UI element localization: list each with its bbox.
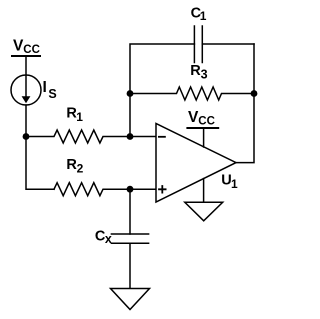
- label Cx: [95, 228, 112, 246]
- node at R3 right junction: [251, 90, 258, 97]
- minus sign: [159, 136, 165, 138]
- Vcc underline (op-amp): [187, 127, 218, 129]
- label IS: [43, 79, 57, 101]
- svg-text:1: 1: [200, 9, 207, 23]
- label R1: [66, 106, 83, 125]
- op-amp U1: [156, 124, 236, 203]
- wire C1 to right column: [202, 43, 254, 45]
- ground (op-amp): [185, 202, 223, 221]
- label R3: [190, 63, 207, 82]
- label U1: [221, 173, 238, 192]
- svg-text:CC: CC: [23, 44, 40, 56]
- wire feedback column (node up to C1 row): [130, 44, 194, 137]
- svg-text:1: 1: [231, 177, 238, 191]
- svg-text:2: 2: [77, 161, 84, 175]
- svg-text:S: S: [48, 87, 56, 101]
- capacitor Cx: [111, 233, 148, 235]
- label R2: [66, 157, 83, 176]
- svg-text:I: I: [43, 79, 47, 96]
- current source arrow: [25, 76, 27, 97]
- Vcc underline (left): [12, 55, 40, 57]
- ground (bottom): [111, 289, 150, 310]
- resistor R3: [130, 87, 254, 100]
- wire non-inverting input: [130, 188, 156, 190]
- wire inverting input: [130, 136, 156, 138]
- node at R1 / feedback / inverting input: [127, 133, 134, 140]
- resistor R1: [26, 130, 130, 143]
- label C1: [191, 6, 207, 24]
- wire Cx to ground: [129, 243, 131, 288]
- wire Vcc to current source: [25, 57, 27, 75]
- plus sign: [159, 186, 166, 193]
- svg-text:3: 3: [201, 68, 208, 82]
- wire current source to node: [25, 105, 27, 137]
- svg-text:CC: CC: [198, 116, 215, 128]
- svg-text:x: x: [105, 232, 112, 246]
- node at R2 / Cx / non-inverting input: [127, 186, 134, 193]
- Vcc supply label (left): [13, 38, 40, 57]
- node at R3 left junction: [127, 90, 134, 97]
- wire Vcc to op-amp top: [203, 129, 205, 147]
- wire non-inverting node down to Cx: [129, 189, 131, 234]
- node at IS/R1 junction: [23, 133, 30, 140]
- wire op-amp bottom to ground: [203, 179, 205, 203]
- current source IS: [11, 75, 41, 105]
- wire left column down to R2: [26, 137, 54, 190]
- Vcc supply label (op-amp): [188, 109, 215, 128]
- svg-text:1: 1: [76, 110, 83, 124]
- resistor R2: [54, 183, 130, 196]
- wire right feedback column: [236, 44, 254, 163]
- capacitor C1: [193, 26, 195, 63]
